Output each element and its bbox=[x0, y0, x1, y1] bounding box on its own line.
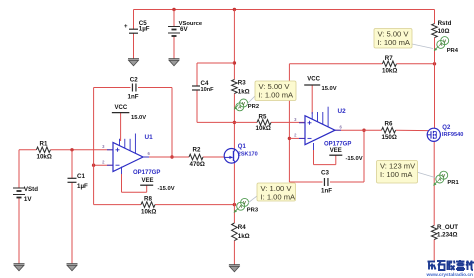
svg-text:1V: 1V bbox=[24, 196, 32, 203]
svg-text:R6: R6 bbox=[385, 121, 393, 128]
svg-text:I: 100 mA: I: 100 mA bbox=[380, 170, 413, 179]
svg-text:VCC: VCC bbox=[307, 76, 320, 82]
svg-text:OP177GP: OP177GP bbox=[133, 170, 160, 176]
svg-text:PR3: PR3 bbox=[247, 207, 259, 213]
svg-text:1µF: 1µF bbox=[139, 26, 150, 33]
svg-text:R3: R3 bbox=[238, 80, 246, 87]
svg-text:R1: R1 bbox=[40, 141, 48, 148]
svg-text:VEE: VEE bbox=[330, 148, 342, 154]
svg-text:Rstd: Rstd bbox=[438, 20, 452, 27]
svg-text:IRF9540: IRF9540 bbox=[442, 132, 463, 138]
svg-text:6V: 6V bbox=[180, 26, 188, 33]
svg-text:U2: U2 bbox=[338, 108, 347, 115]
svg-text:1µF: 1µF bbox=[77, 183, 88, 190]
svg-text:Q2: Q2 bbox=[442, 125, 451, 131]
svg-text:10kΩ: 10kΩ bbox=[382, 68, 397, 75]
svg-text:R2: R2 bbox=[193, 147, 201, 154]
svg-text:1nF: 1nF bbox=[321, 187, 332, 194]
svg-text:150Ω: 150Ω bbox=[382, 134, 397, 141]
svg-text:www.crystalradio.cn: www.crystalradio.cn bbox=[426, 272, 474, 278]
svg-text:R8: R8 bbox=[144, 195, 152, 202]
svg-text:1kΩ: 1kΩ bbox=[238, 233, 250, 240]
svg-text:10Ω: 10Ω bbox=[438, 28, 450, 35]
svg-text:R4: R4 bbox=[238, 224, 246, 231]
svg-text:PR2: PR2 bbox=[248, 104, 259, 110]
svg-text:I: 100 mA: I: 100 mA bbox=[378, 38, 411, 47]
svg-text:15.0V: 15.0V bbox=[322, 86, 337, 92]
svg-text:C2: C2 bbox=[130, 77, 138, 84]
svg-text:C1: C1 bbox=[77, 173, 85, 180]
svg-text:10kΩ: 10kΩ bbox=[141, 208, 156, 215]
svg-text:10kΩ: 10kΩ bbox=[256, 125, 271, 132]
svg-text:PR1: PR1 bbox=[447, 180, 459, 186]
svg-text:10kΩ: 10kΩ bbox=[37, 153, 52, 160]
svg-text:VCC: VCC bbox=[115, 105, 128, 111]
svg-text:10nF: 10nF bbox=[201, 87, 215, 93]
svg-text:OP177GP: OP177GP bbox=[324, 142, 351, 148]
svg-text:470Ω: 470Ω bbox=[190, 161, 205, 168]
svg-text:R_OUT: R_OUT bbox=[437, 224, 458, 231]
svg-text:1kΩ: 1kΩ bbox=[238, 89, 250, 96]
svg-text:C4: C4 bbox=[201, 80, 209, 87]
svg-text:PR4: PR4 bbox=[447, 48, 459, 54]
svg-text:R5: R5 bbox=[259, 113, 267, 120]
svg-text:1nF: 1nF bbox=[128, 94, 139, 101]
svg-text:+: + bbox=[124, 24, 128, 30]
svg-text:VStd: VStd bbox=[24, 186, 38, 193]
svg-text:I: 1.00 mA: I: 1.00 mA bbox=[259, 91, 295, 100]
svg-text:-15.0V: -15.0V bbox=[158, 186, 175, 192]
svg-text:VEE: VEE bbox=[142, 178, 154, 184]
svg-text:R7: R7 bbox=[385, 55, 393, 62]
svg-text:2SK170: 2SK170 bbox=[238, 151, 258, 157]
svg-text:15.0V: 15.0V bbox=[131, 115, 146, 121]
svg-text:I: 1.00 mA: I: 1.00 mA bbox=[261, 193, 297, 202]
svg-text:1.234Ω: 1.234Ω bbox=[437, 231, 457, 238]
svg-text:-15.0V: -15.0V bbox=[346, 156, 363, 162]
svg-text:U1: U1 bbox=[145, 134, 154, 141]
svg-text:C3: C3 bbox=[321, 169, 329, 176]
svg-text:Q1: Q1 bbox=[238, 144, 247, 150]
